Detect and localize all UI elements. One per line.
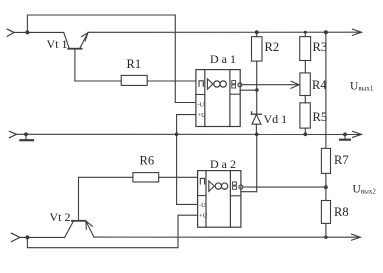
wire R7-R8 bbox=[325, 173, 327, 200]
ground left bbox=[20, 132, 33, 140]
svg-text:Vt 2: Vt 2 bbox=[50, 210, 71, 224]
arrow R4 wiper bbox=[291, 81, 299, 88]
wire Vd1 node down to Da2 aux bbox=[256, 134, 258, 191]
transistor Vt2 bbox=[65, 221, 94, 238]
wire bottom feedback loop bbox=[27, 215, 197, 248]
svg-text:-U: -U bbox=[199, 202, 206, 209]
wire R3-R4 bbox=[304, 61, 306, 73]
resistor R4 bbox=[300, 73, 310, 96]
op-amp Da2 bbox=[198, 171, 243, 228]
wire R5 to mid rail bbox=[304, 128, 306, 134]
wire Da2 aux output bbox=[241, 191, 257, 193]
arrow mid rail output bbox=[353, 131, 362, 137]
wire R2 bottom to Vd1 bbox=[256, 61, 258, 114]
svg-text:Vd 1: Vd 1 bbox=[264, 112, 288, 126]
svg-text:R4: R4 bbox=[312, 78, 327, 92]
svg-text:D a 1: D a 1 bbox=[210, 52, 236, 66]
wire Da1 aux output bbox=[240, 89, 257, 91]
resistor R5 bbox=[300, 103, 310, 128]
svg-text:Uвых2: Uвых2 bbox=[353, 184, 377, 196]
node Da1 aux output junction bbox=[255, 88, 259, 92]
svg-text:R3: R3 bbox=[313, 40, 328, 54]
wire Vt2 collector to R6 bbox=[79, 177, 133, 220]
svg-text:+U: +U bbox=[199, 213, 208, 220]
wire Da1 output to R4 wiper bbox=[242, 84, 299, 86]
wire R3 stub bbox=[304, 32, 306, 36]
node input1 junction bbox=[25, 30, 29, 34]
wire Da2 output to R7/R8 node bbox=[243, 186, 326, 188]
node R3 top bbox=[304, 31, 307, 34]
svg-text:-U: -U bbox=[198, 102, 205, 109]
wire R8 to bottom rail bbox=[325, 223, 327, 237]
resistor R8 bbox=[321, 201, 330, 224]
arrow bottom rail output bbox=[352, 234, 361, 240]
wire top rail down to R7 bbox=[325, 32, 327, 148]
wire Vt2 emitter bottom rail bbox=[94, 236, 360, 238]
wire R6 to Da2 input bbox=[159, 176, 198, 178]
resistor R2 bbox=[252, 37, 263, 61]
wire middle rail bbox=[17, 133, 362, 135]
wire input3 to Vt2 base bbox=[20, 236, 65, 238]
wire Vt1 emitter rail (top rail) bbox=[88, 31, 361, 33]
input port 1 chevron bbox=[7, 29, 14, 36]
resistor R7 bbox=[321, 148, 330, 173]
wire Da2 mid input bbox=[177, 203, 198, 205]
wire feedback loop top bbox=[27, 15, 196, 103]
svg-text:D a 2: D a 2 bbox=[210, 157, 236, 171]
node input3 junction bbox=[25, 235, 29, 239]
input port 3 chevron bbox=[12, 233, 20, 241]
node mid rail tie bbox=[175, 133, 179, 137]
arrow top rail output bbox=[353, 29, 362, 35]
node R7/R8 junction bbox=[324, 185, 328, 189]
wire R4-R5 bbox=[304, 96, 306, 103]
svg-text:Uвых1: Uвых1 bbox=[350, 81, 374, 93]
svg-text:R2: R2 bbox=[265, 40, 280, 54]
zener diode Vd1 bbox=[252, 112, 262, 134]
node R5 bottom bbox=[303, 132, 307, 136]
svg-text:R6: R6 bbox=[140, 154, 155, 168]
ground right bbox=[340, 133, 350, 140]
wire R1 to Da1 input bbox=[147, 80, 196, 82]
wire input1 to Vt1 base bbox=[14, 31, 64, 33]
resistor R6 bbox=[133, 173, 159, 182]
node top rail to R7 bbox=[324, 30, 328, 34]
node R8 bottom bbox=[324, 236, 327, 239]
op-amp Da1 bbox=[196, 70, 242, 127]
wire Da1 ground input to mid rail bbox=[177, 114, 196, 116]
svg-text:Vt 1: Vt 1 bbox=[47, 37, 68, 51]
svg-text:R5: R5 bbox=[313, 110, 328, 124]
wire Vt1 collector to R1 bbox=[75, 80, 121, 82]
resistor R1 bbox=[121, 75, 147, 85]
transistor Vt1 bbox=[64, 32, 88, 81]
node Vd1 mid rail bbox=[255, 133, 259, 137]
svg-text:R8: R8 bbox=[334, 205, 349, 219]
svg-text:+U: +U bbox=[198, 112, 207, 119]
wire R2 stub bbox=[256, 32, 258, 37]
svg-text:R7: R7 bbox=[334, 153, 349, 167]
node R2 top bbox=[255, 30, 259, 34]
input port 2 chevron (mid rail) bbox=[9, 131, 16, 137]
resistor R3 bbox=[300, 37, 311, 61]
svg-text:R1: R1 bbox=[127, 57, 142, 71]
